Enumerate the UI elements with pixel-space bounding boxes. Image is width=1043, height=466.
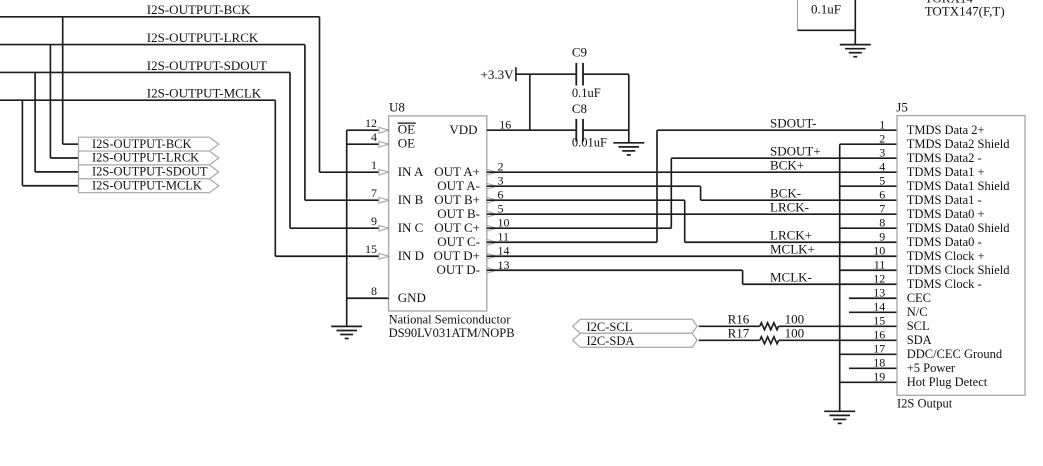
svg-text:SDOUT-: SDOUT- bbox=[770, 115, 816, 130]
svg-text:I2S-OUTPUT-MCLK: I2S-OUTPUT-MCLK bbox=[92, 178, 202, 192]
svg-text:OE: OE bbox=[398, 122, 415, 137]
svg-text:TDMS Clock Shield: TDMS Clock Shield bbox=[907, 263, 1011, 277]
svg-text:OUT A-: OUT A- bbox=[437, 178, 480, 193]
svg-text:IN D: IN D bbox=[398, 248, 424, 263]
svg-text:+5 Power: +5 Power bbox=[907, 361, 956, 375]
svg-text:BCK+: BCK+ bbox=[770, 157, 804, 172]
svg-text:4: 4 bbox=[371, 130, 377, 144]
svg-text:17: 17 bbox=[873, 342, 885, 356]
svg-text:18: 18 bbox=[873, 356, 885, 370]
svg-text:TDMS Data0 +: TDMS Data0 + bbox=[907, 207, 985, 221]
svg-text:TDMS Data1 -: TDMS Data1 - bbox=[907, 193, 982, 207]
svg-text:15: 15 bbox=[873, 314, 885, 328]
svg-text:0.1uF: 0.1uF bbox=[572, 86, 601, 100]
svg-text:I2S-OUTPUT-BCK: I2S-OUTPUT-BCK bbox=[92, 137, 192, 151]
svg-text:1: 1 bbox=[371, 158, 377, 172]
svg-text:TMDS Data2 Shield: TMDS Data2 Shield bbox=[907, 137, 1011, 151]
svg-text:TDMS Data0 -: TDMS Data0 - bbox=[907, 235, 982, 249]
svg-text:0.1uF: 0.1uF bbox=[811, 2, 841, 17]
svg-text:10: 10 bbox=[873, 243, 885, 257]
svg-text:I2S-OUTPUT-MCLK: I2S-OUTPUT-MCLK bbox=[147, 86, 262, 101]
svg-text:DDC/CEC Ground: DDC/CEC Ground bbox=[907, 347, 1003, 361]
svg-text:National Semiconductor: National Semiconductor bbox=[389, 312, 512, 326]
svg-text:TDMS Clock -: TDMS Clock - bbox=[907, 277, 982, 291]
svg-text:5: 5 bbox=[879, 173, 885, 187]
svg-text:OUT B-: OUT B- bbox=[437, 206, 480, 221]
svg-text:LRCK+: LRCK+ bbox=[770, 227, 812, 242]
svg-text:TDMS Clock +: TDMS Clock + bbox=[907, 249, 985, 263]
svg-text:TDMS Data0 Shield: TDMS Data0 Shield bbox=[907, 221, 1011, 235]
svg-text:1: 1 bbox=[879, 117, 885, 131]
svg-text:I2C-SCL: I2C-SCL bbox=[587, 320, 633, 334]
svg-text:LRCK-: LRCK- bbox=[770, 199, 809, 214]
svg-text:100: 100 bbox=[785, 325, 805, 340]
svg-text:I2S-OUTPUT-LRCK: I2S-OUTPUT-LRCK bbox=[147, 30, 259, 45]
svg-text:100: 100 bbox=[785, 311, 805, 326]
svg-text:DS90LV031ATM/NOPB: DS90LV031ATM/NOPB bbox=[389, 326, 515, 340]
svg-text:6: 6 bbox=[879, 187, 885, 201]
svg-text:9: 9 bbox=[879, 229, 885, 243]
svg-text:OUT D-: OUT D- bbox=[437, 262, 480, 277]
svg-text:15: 15 bbox=[365, 242, 377, 256]
svg-text:R17: R17 bbox=[728, 325, 750, 340]
svg-text:IN C: IN C bbox=[398, 220, 424, 235]
svg-text:I2S-OUTPUT-SDOUT: I2S-OUTPUT-SDOUT bbox=[147, 58, 267, 73]
svg-text:C9: C9 bbox=[572, 45, 587, 60]
svg-text:I2S Output: I2S Output bbox=[897, 397, 953, 411]
svg-text:OUT D+: OUT D+ bbox=[434, 248, 480, 263]
svg-text:R16: R16 bbox=[728, 311, 750, 326]
svg-text:MCLK+: MCLK+ bbox=[770, 241, 815, 256]
svg-text:12: 12 bbox=[365, 116, 377, 130]
svg-text:4: 4 bbox=[879, 159, 885, 173]
svg-text:I2S-OUTPUT-SDOUT: I2S-OUTPUT-SDOUT bbox=[92, 165, 208, 179]
svg-text:IN A: IN A bbox=[398, 164, 424, 179]
svg-text:GND: GND bbox=[398, 290, 426, 305]
svg-text:8: 8 bbox=[371, 284, 377, 298]
svg-text:SCL: SCL bbox=[907, 319, 930, 333]
svg-text:16: 16 bbox=[873, 328, 885, 342]
svg-text:BCK-: BCK- bbox=[770, 185, 801, 200]
svg-text:11: 11 bbox=[874, 258, 886, 272]
svg-text:C8: C8 bbox=[572, 101, 587, 116]
svg-text:2: 2 bbox=[879, 131, 885, 145]
svg-text:OE: OE bbox=[398, 136, 415, 151]
svg-text:OUT A+: OUT A+ bbox=[434, 164, 480, 179]
svg-text:7: 7 bbox=[879, 201, 885, 215]
svg-text:MCLK-: MCLK- bbox=[770, 269, 812, 284]
svg-text:TMDS Data 2+: TMDS Data 2+ bbox=[907, 123, 985, 137]
svg-text:J5: J5 bbox=[896, 100, 908, 115]
svg-text:OUT B+: OUT B+ bbox=[434, 192, 480, 207]
svg-text:I2S-OUTPUT-BCK: I2S-OUTPUT-BCK bbox=[147, 2, 251, 17]
svg-text:0.01uF: 0.01uF bbox=[572, 135, 607, 149]
svg-text:+3.3V: +3.3V bbox=[481, 67, 515, 82]
svg-text:OUT C+: OUT C+ bbox=[434, 220, 480, 235]
svg-text:CEC: CEC bbox=[907, 291, 931, 305]
svg-text:Hot Plug Detect: Hot Plug Detect bbox=[907, 375, 988, 389]
svg-text:TDMS Data2 -: TDMS Data2 - bbox=[907, 151, 982, 165]
svg-text:U8: U8 bbox=[389, 100, 405, 115]
svg-text:SDA: SDA bbox=[907, 333, 932, 347]
svg-text:8: 8 bbox=[879, 215, 885, 229]
svg-text:I2S-OUTPUT-LRCK: I2S-OUTPUT-LRCK bbox=[92, 151, 199, 165]
svg-text:14: 14 bbox=[873, 300, 885, 314]
svg-text:9: 9 bbox=[371, 214, 377, 228]
svg-text:3: 3 bbox=[879, 145, 885, 159]
svg-text:TDMS Data1 +: TDMS Data1 + bbox=[907, 165, 985, 179]
svg-text:SDOUT+: SDOUT+ bbox=[770, 143, 821, 158]
svg-text:I2C-SDA: I2C-SDA bbox=[587, 334, 635, 348]
svg-text:12: 12 bbox=[873, 272, 885, 286]
svg-text:19: 19 bbox=[873, 370, 885, 384]
svg-text:7: 7 bbox=[371, 186, 377, 200]
svg-text:TOTX147(F,T): TOTX147(F,T) bbox=[925, 4, 1005, 19]
svg-text:TDMS Data1 Shield: TDMS Data1 Shield bbox=[907, 179, 1011, 193]
svg-text:IN B: IN B bbox=[398, 192, 424, 207]
svg-text:OUT C-: OUT C- bbox=[437, 234, 480, 249]
svg-text:VDD: VDD bbox=[449, 122, 477, 137]
svg-text:N/C: N/C bbox=[907, 305, 928, 319]
svg-text:TORX14: TORX14 bbox=[925, 0, 974, 5]
svg-text:13: 13 bbox=[873, 286, 885, 300]
